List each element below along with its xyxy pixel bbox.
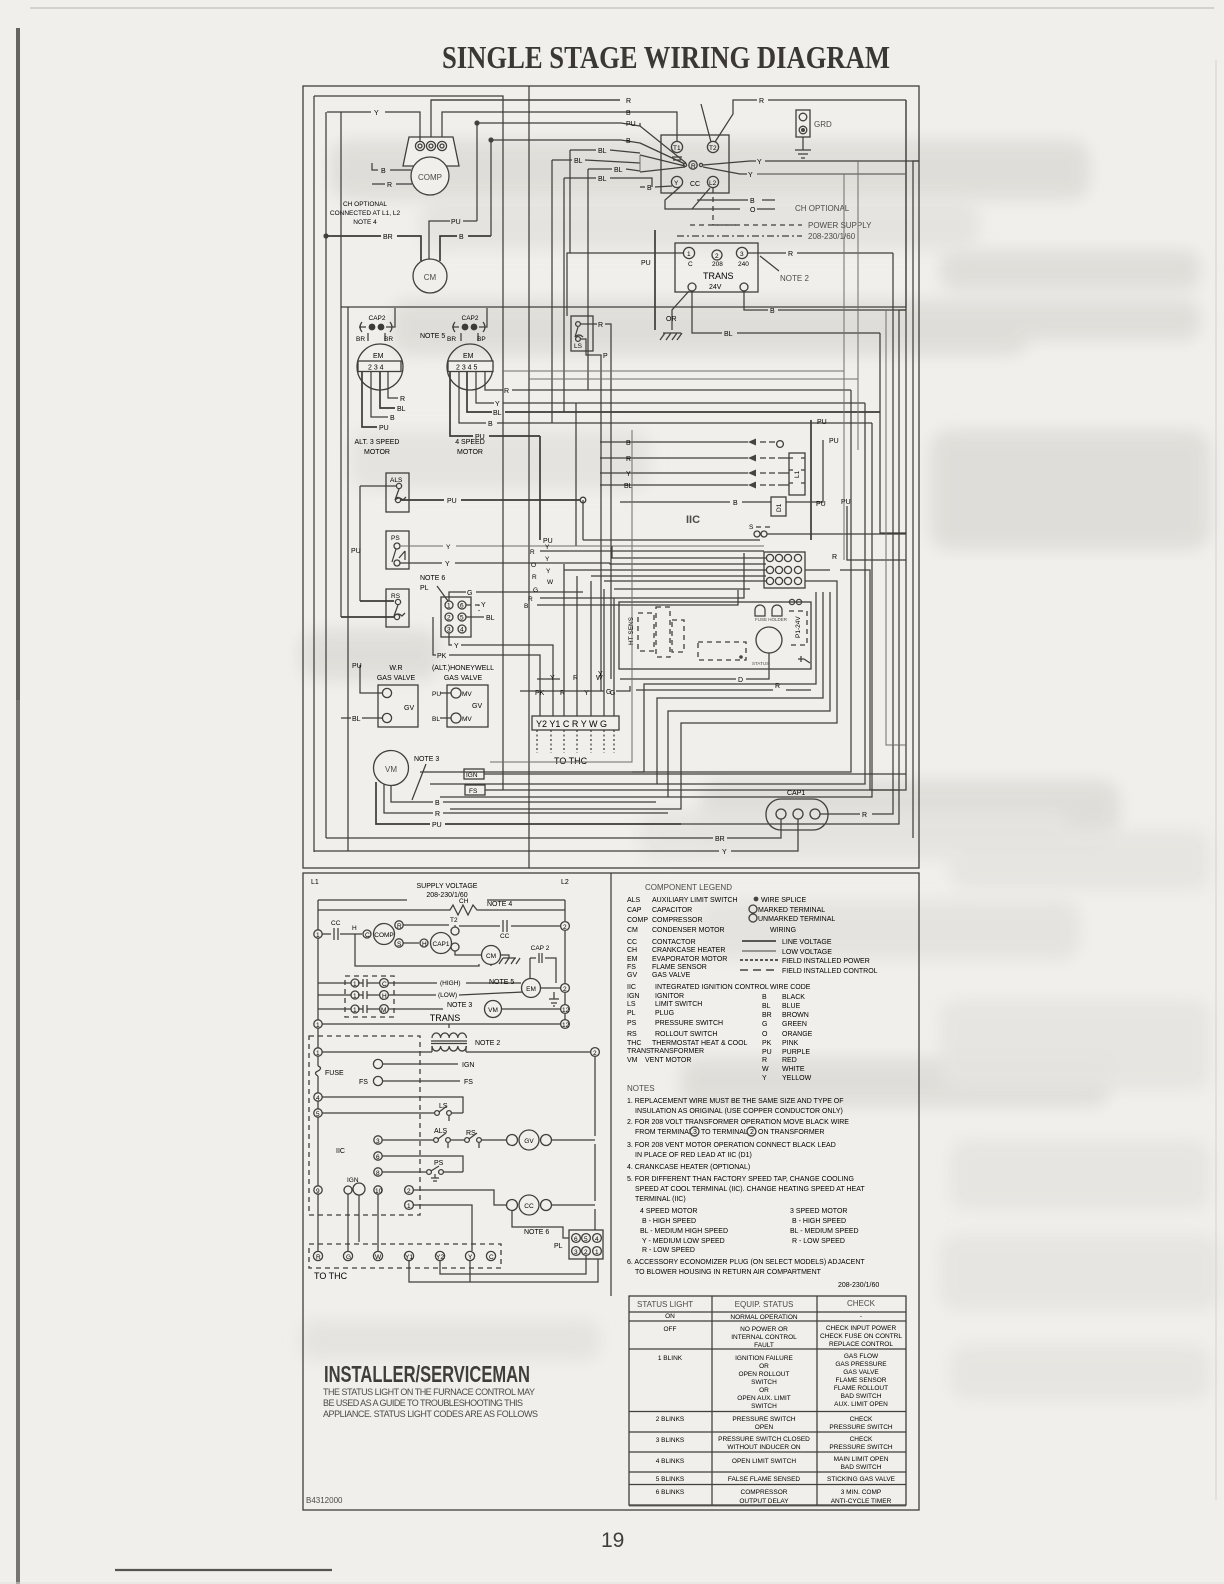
svg-text:PRESSURE SWITCH: PRESSURE SWITCH: [732, 1416, 796, 1423]
svg-text:PU: PU: [447, 498, 457, 505]
svg-text:WITHOUT INDUCER ON: WITHOUT INDUCER ON: [727, 1444, 800, 1451]
terminal Y: [671, 176, 682, 187]
svg-text:CHECK: CHECK: [850, 1416, 873, 1423]
svg-text:R: R: [626, 98, 631, 105]
svg-text:ORANGE: ORANGE: [782, 1031, 813, 1038]
svg-text:WIRING: WIRING: [770, 927, 796, 934]
capacitor CAP1: [766, 790, 828, 830]
flame sensor FS box: [465, 785, 485, 795]
svg-text:GAS VALVE: GAS VALVE: [652, 972, 691, 979]
svg-text:ALS: ALS: [627, 897, 641, 904]
svg-text:10: 10: [375, 1188, 383, 1195]
wire Y G lanes left of board: [537, 678, 560, 680]
svg-text:PRESSURE SWITCH: PRESSURE SWITCH: [829, 1424, 893, 1431]
svg-text:R: R: [862, 812, 867, 819]
svg-text:PU: PU: [451, 219, 461, 226]
svg-text:OPEN AUX. LIMIT: OPEN AUX. LIMIT: [737, 1395, 790, 1402]
svg-text:Y2: Y2: [436, 1254, 444, 1261]
svg-text:BR: BR: [447, 336, 456, 343]
svg-text:3: 3: [574, 1249, 578, 1256]
evaporator motor EM: [388, 982, 521, 984]
svg-text:Y: Y: [546, 568, 551, 575]
svg-text:3. FOR 208 VENT MOTOR OPERATIO: 3. FOR 208 VENT MOTOR OPERATION CONNECT …: [627, 1142, 836, 1149]
limit switch LS: [571, 316, 593, 351]
capacitor under T1: [672, 157, 682, 160]
svg-text:SPEED AT COOL TERMINAL (IIC).: SPEED AT COOL TERMINAL (IIC). CHANGE HEA…: [635, 1186, 865, 1193]
svg-text:INSTALLER/SERVICEMAN: INSTALLER/SERVICEMAN: [324, 1361, 530, 1387]
svg-text:MOTOR: MOTOR: [457, 449, 483, 456]
coil R: [689, 161, 697, 169]
svg-text:(LOW): (LOW): [438, 992, 457, 999]
svg-text:5: 5: [460, 615, 464, 622]
evaporator motor EM (4 speed): [447, 344, 493, 390]
wire G from PL: [449, 592, 583, 601]
wire B lane 2 with splice: [488, 137, 493, 142]
wires to plug rows: [318, 982, 380, 984]
wire right bus B trans: [681, 310, 906, 824]
gas valve GV (ALT Honeywell): [432, 665, 494, 727]
svg-text:208-230/1/60: 208-230/1/60: [808, 232, 856, 241]
svg-text:POWER SUPPLY: POWER SUPPLY: [808, 221, 872, 230]
wire Y out lower: [703, 167, 906, 174]
svg-text:FS: FS: [359, 1079, 368, 1086]
field installed power sample: [740, 959, 778, 961]
svg-text:COMPONENT LEGEND: COMPONENT LEGEND: [645, 883, 732, 892]
sensor pair: [789, 599, 794, 604]
wire EM1 leg BL: [380, 372, 395, 408]
svg-text:OPEN: OPEN: [755, 1424, 774, 1431]
svg-text:BAD SWITCH: BAD SWITCH: [841, 1393, 882, 1400]
svg-text:B - HIGH SPEED: B - HIGH SPEED: [792, 1218, 846, 1225]
svg-text:NOTE 6: NOTE 6: [524, 1229, 549, 1236]
svg-text:CH OPTIONAL: CH OPTIONAL: [795, 204, 850, 213]
svg-text:BL: BL: [724, 331, 733, 338]
THC dashed box: [309, 1244, 501, 1268]
svg-text:GAS VALVE: GAS VALVE: [843, 1369, 879, 1376]
svg-text:AUXILIARY LIMIT SWITCH: AUXILIARY LIMIT SWITCH: [652, 897, 738, 904]
svg-text:OUTPUT DELAY: OUTPUT DELAY: [739, 1498, 789, 1505]
svg-text:ON TRANSFORMER: ON TRANSFORMER: [758, 1129, 824, 1136]
svg-text:2: 2: [563, 986, 567, 993]
svg-text:FLAME SENSOR: FLAME SENSOR: [836, 1377, 887, 1384]
svg-text:R: R: [400, 396, 405, 403]
svg-text:PU: PU: [841, 499, 851, 506]
gas valve GV (W.R): [377, 665, 418, 727]
svg-text:B - HIGH SPEED: B - HIGH SPEED: [642, 1218, 696, 1225]
svg-text:MAIN LIMIT OPEN: MAIN LIMIT OPEN: [834, 1456, 889, 1463]
wire long vertical mid-left: [314, 96, 503, 790]
svg-text:5 BLINKS: 5 BLINKS: [656, 1476, 685, 1483]
wire P from LS: [581, 339, 601, 691]
svg-text:WIRE SPLICE: WIRE SPLICE: [761, 897, 806, 904]
crankcase heater CH: [318, 905, 565, 915]
FOOTER: [306, 1361, 624, 1552]
svg-text:NOTE 3: NOTE 3: [414, 756, 439, 763]
wire BL lane 3: [588, 169, 640, 171]
svg-text:CAP: CAP: [627, 907, 642, 914]
svg-text:C: C: [688, 261, 693, 268]
svg-text:W.R: W.R: [389, 665, 402, 672]
wire PU from VM: [376, 782, 681, 824]
terminal T1: [671, 141, 682, 152]
svg-text:BL: BL: [486, 615, 495, 622]
wire to RS bottom: [341, 616, 394, 618]
dashed bracket right: [789, 611, 807, 645]
THC terminals: [313, 1251, 322, 1260]
dashed relay 3: [672, 620, 684, 652]
wire PU to CM: [429, 221, 477, 259]
svg-text:GAS FLOW: GAS FLOW: [844, 1353, 879, 1360]
wire PU left of TRANS: [654, 230, 656, 330]
ignitor row: [314, 1186, 322, 1194]
svg-text:G: G: [533, 587, 538, 594]
svg-text:COMP: COMP: [627, 917, 648, 924]
svg-text:5: 5: [316, 1111, 320, 1118]
svg-text:PINK: PINK: [782, 1040, 799, 1047]
svg-text:THC: THC: [627, 1040, 641, 1047]
svg-text:H: H: [382, 993, 387, 1000]
svg-text:COMPRESSOR: COMPRESSOR: [652, 917, 703, 924]
NOTESB: [627, 1084, 879, 1289]
svg-text:B: B: [488, 421, 493, 428]
wire PU lane with splice: [474, 120, 479, 125]
svg-text:NO POWER OR: NO POWER OR: [740, 1326, 788, 1333]
svg-text:FS: FS: [627, 964, 636, 971]
svg-text:PL: PL: [554, 1243, 563, 1250]
svg-text:PS: PS: [391, 535, 400, 542]
buzzer circle: [756, 627, 782, 653]
wire left bus 3: [340, 112, 342, 617]
svg-text:1. REPLACEMENT WIRE MUST BE TH: 1. REPLACEMENT WIRE MUST BE THE SAME SIZ…: [627, 1098, 844, 1105]
svg-text:L1: L1: [794, 470, 801, 478]
svg-text:D: D: [738, 677, 743, 684]
svg-text:CONTACTOR: CONTACTOR: [652, 939, 696, 946]
wire Y from PS top: [400, 545, 612, 547]
wire EM2 leg R: [485, 372, 851, 390]
connector D1 small box: [771, 497, 786, 516]
svg-text:ON: ON: [665, 1313, 675, 1320]
svg-text:CH: CH: [627, 947, 637, 954]
svg-text:2: 2: [584, 1249, 588, 1256]
svg-text:Y: Y: [757, 159, 762, 166]
svg-text:OPEN LIMIT SWITCH: OPEN LIMIT SWITCH: [732, 1458, 796, 1465]
wire BL to GV: [341, 717, 382, 719]
svg-text:B: B: [626, 138, 631, 145]
svg-text:R: R: [397, 923, 402, 930]
svg-text:2: 2: [407, 1188, 411, 1195]
svg-text:RS: RS: [391, 593, 401, 600]
svg-text:R: R: [762, 1057, 767, 1064]
svg-text:Y: Y: [598, 671, 603, 678]
vent motor VM row: [388, 1008, 443, 1010]
svg-text:SWITCH: SWITCH: [751, 1403, 777, 1410]
terminal 4: [314, 1093, 322, 1101]
connector L1 (vertical): [789, 453, 805, 495]
right low rail: [594, 1056, 596, 1234]
svg-text:GAS VALVE: GAS VALVE: [377, 675, 416, 682]
svg-text:24V: 24V: [709, 284, 722, 291]
svg-text:R: R: [504, 388, 509, 395]
svg-text:19: 19: [601, 1529, 624, 1552]
svg-text:4: 4: [595, 1236, 599, 1243]
svg-text:4. CRANKCASE HEATER (OPTIONAL): 4. CRANKCASE HEATER (OPTIONAL): [627, 1164, 750, 1171]
svg-text:5. FOR DIFFERENT THAN FACTORY: 5. FOR DIFFERENT THAN FACTORY SPEED TAP,…: [627, 1176, 854, 1183]
terminal 12: [561, 1005, 570, 1014]
svg-text:1: 1: [316, 1022, 320, 1029]
wire B to CM: [440, 236, 491, 261]
svg-text:CC: CC: [524, 1203, 534, 1210]
svg-text:TRANS: TRANS: [430, 1013, 461, 1023]
svg-text:BLUE: BLUE: [782, 1003, 801, 1010]
svg-text:Y: Y: [445, 561, 450, 568]
svg-text:3: 3: [376, 1138, 380, 1145]
svg-text:B: B: [435, 800, 440, 807]
terminal 2: [561, 922, 570, 931]
wire right bus v872: [668, 423, 872, 797]
wire B from TRANS right: [744, 291, 906, 310]
svg-text:Y: Y: [454, 643, 459, 650]
svg-text:L1: L1: [311, 879, 319, 886]
svg-text:YELLOW: YELLOW: [782, 1075, 812, 1082]
svg-text:NOTE 5: NOTE 5: [420, 333, 445, 340]
svg-text:CAP2: CAP2: [462, 315, 479, 322]
svg-text:1: 1: [316, 932, 320, 939]
wire nested corners right mid: [843, 174, 845, 560]
svg-text:EQUIP. STATUS: EQUIP. STATUS: [735, 1300, 794, 1309]
svg-text:Y: Y: [481, 602, 486, 609]
svg-text:G: G: [762, 1021, 767, 1028]
svg-text:EM: EM: [526, 986, 536, 993]
svg-text:COMPRESSOR: COMPRESSOR: [741, 1489, 788, 1496]
svg-text:R: R: [532, 574, 537, 581]
svg-text:BLACK: BLACK: [782, 994, 805, 1001]
svg-text:BR: BR: [762, 1012, 772, 1019]
ground under EM2: [549, 992, 559, 1006]
wire Y dashed from PL: [466, 605, 479, 611]
ground at CM: [499, 955, 520, 964]
svg-text:SWITCH: SWITCH: [751, 1379, 777, 1386]
plug block 3 rows: [345, 976, 394, 1017]
wire power supply dashed: [713, 188, 740, 225]
svg-text:BR: BR: [715, 836, 725, 843]
contact CC right: [459, 925, 565, 927]
svg-text:IN PLACE OF RED LEAD AT IIC (D: IN PLACE OF RED LEAD AT IIC (D1): [635, 1152, 752, 1159]
svg-text:MOTOR: MOTOR: [364, 449, 390, 456]
capacitor CAP2 (right): [447, 308, 487, 343]
svg-text:NOTE 2: NOTE 2: [475, 1040, 500, 1047]
svg-text:BL: BL: [574, 158, 583, 165]
svg-text:Y1: Y1: [405, 1254, 413, 1261]
svg-text:1: 1: [353, 981, 357, 988]
svg-text:CC: CC: [627, 939, 637, 946]
wire from TRANS 1 left: [567, 253, 683, 316]
wire EM1 leg B: [371, 372, 388, 417]
wire R diagonals at T2: [701, 100, 906, 142]
terminal 1: [405, 1201, 414, 1210]
svg-text:PU: PU: [829, 438, 839, 445]
svg-text:H: H: [422, 941, 427, 948]
svg-text:FLAME SENSOR: FLAME SENSOR: [652, 964, 707, 971]
svg-text:PU: PU: [432, 691, 441, 698]
svg-text:R: R: [626, 456, 631, 463]
svg-text:Y: Y: [495, 401, 500, 408]
svg-text:CHECK FUSE ON CONTRL: CHECK FUSE ON CONTRL: [820, 1333, 902, 1340]
rail L1: [317, 900, 319, 1252]
svg-text:B: B: [733, 500, 738, 507]
wire B left of CC: [640, 186, 672, 187]
svg-text:TO TERMINAL: TO TERMINAL: [701, 1129, 748, 1136]
wire stub B on COMP: [372, 163, 411, 170]
svg-text:208: 208: [712, 261, 723, 268]
wire PU mid vertical: [539, 436, 541, 540]
svg-text:COMP: COMP: [418, 173, 442, 182]
wire EM1 leg R: [388, 372, 398, 398]
wire to RS top: [360, 600, 394, 602]
marked terminal symbol: [749, 905, 757, 913]
wire Y from PL bottom: [449, 633, 553, 716]
svg-text:RS: RS: [466, 1130, 476, 1137]
svg-text:CHECK INPUT POWER: CHECK INPUT POWER: [826, 1325, 897, 1332]
svg-text:BL: BL: [352, 716, 361, 723]
GHOSTS: [300, 140, 1210, 1106]
svg-text:1: 1: [353, 993, 357, 1000]
svg-text:LIMIT SWITCH: LIMIT SWITCH: [655, 1001, 702, 1008]
svg-text:6. ACCESSORY ECONOMIZER PLUG (: 6. ACCESSORY ECONOMIZER PLUG (ON SELECT …: [627, 1259, 865, 1266]
svg-text:OR: OR: [759, 1387, 769, 1394]
svg-text:TRANSFORMER: TRANSFORMER: [650, 1048, 704, 1055]
svg-text:Y: Y: [446, 544, 451, 551]
svg-text:W: W: [547, 579, 554, 586]
transformer TRANS row: [314, 1020, 322, 1028]
svg-text:2 BLINKS: 2 BLINKS: [656, 1416, 685, 1423]
svg-text:R: R: [598, 322, 603, 329]
dashed relay 1: [638, 613, 654, 651]
svg-text:R: R: [387, 182, 392, 189]
svg-text:BP: BP: [477, 336, 486, 343]
svg-text:B: B: [524, 603, 528, 610]
svg-text:L2: L2: [561, 879, 569, 886]
svg-text:1: 1: [353, 1007, 357, 1014]
contactor CC: [661, 135, 729, 193]
wire supply top: [318, 899, 565, 901]
svg-text:GREEN: GREEN: [782, 1021, 807, 1028]
svg-text:BL: BL: [614, 167, 623, 174]
terminal 3: [437, 141, 446, 150]
svg-text:4 SPEED MOTOR: 4 SPEED MOTOR: [640, 1208, 697, 1215]
drops to THC: [347, 1194, 349, 1251]
svg-text:PU: PU: [641, 260, 651, 267]
svg-text:Y: Y: [545, 556, 550, 563]
svg-text:GAS PRESSURE: GAS PRESSURE: [835, 1361, 887, 1368]
svg-text:IGNITOR: IGNITOR: [655, 993, 684, 1000]
svg-text:BR: BR: [383, 234, 393, 241]
svg-text:P1-24V: P1-24V: [795, 616, 802, 638]
svg-text:B: B: [647, 185, 652, 192]
legend divider: [610, 873, 612, 1296]
wire right bus R trans: [892, 253, 894, 800]
svg-text:BROWN: BROWN: [782, 1012, 809, 1019]
rollout switch RS: [450, 1139, 465, 1141]
svg-text:INTEGRATED IGNITION CONTROL: INTEGRATED IGNITION CONTROL: [655, 984, 769, 991]
svg-text:H: H: [352, 925, 357, 932]
svg-text:IGN: IGN: [466, 772, 478, 779]
label NOTE 2: [760, 256, 779, 271]
aux limit switch ALS: [382, 1139, 433, 1141]
svg-text:NORMAL OPERATION: NORMAL OPERATION: [730, 1314, 797, 1321]
TOPBOX: [303, 86, 919, 868]
svg-text:EM: EM: [463, 353, 474, 360]
svg-text:D1: D1: [776, 503, 783, 512]
dashed connector strip: [698, 642, 746, 660]
svg-text:REPLACE CONTROL: REPLACE CONTROL: [829, 1341, 893, 1348]
plug PL (6 pin): [441, 597, 471, 637]
svg-text:LINE VOLTAGE: LINE VOLTAGE: [782, 939, 832, 946]
gas valve GV coil: [481, 1139, 507, 1141]
wire bundle to connector rows: [583, 500, 760, 540]
svg-text:ALT. 3 SPEED: ALT. 3 SPEED: [354, 439, 399, 446]
wire CC to PL: [512, 1211, 569, 1238]
svg-text:GV: GV: [404, 705, 414, 712]
svg-text:BL: BL: [432, 716, 440, 723]
wire R top lane to right bus: [431, 99, 620, 101]
svg-text:208-230/1/60: 208-230/1/60: [838, 1282, 879, 1289]
svg-text:T1: T1: [673, 145, 681, 152]
svg-text:B: B: [750, 198, 755, 205]
terminal 5: [314, 1109, 322, 1117]
LADDER: [303, 873, 919, 1510]
wire right bus BL: [880, 333, 906, 533]
svg-text:MARKED TERMINAL: MARKED TERMINAL: [758, 907, 825, 914]
wire BL from PL: [466, 616, 484, 618]
svg-text:CRANKCASE HEATER: CRANKCASE HEATER: [652, 947, 725, 954]
wire B from VM: [391, 786, 656, 802]
svg-text:PU: PU: [379, 425, 389, 432]
svg-text:CHECK: CHECK: [847, 1299, 876, 1308]
rollout switch RS: [386, 589, 409, 627]
svg-text:R - LOW SPEED: R - LOW SPEED: [642, 1247, 695, 1254]
svg-text:CC: CC: [690, 181, 700, 188]
svg-text:P: P: [603, 353, 608, 360]
svg-text:2. FOR 208 VOLT TRANSFORMER OP: 2. FOR 208 VOLT TRANSFORMER OPERATION MO…: [627, 1119, 849, 1126]
svg-text:R: R: [691, 163, 696, 170]
wire stub R on COMP: [372, 183, 412, 185]
wire Y from PS bottom: [400, 562, 610, 564]
svg-text:O: O: [531, 562, 536, 569]
svg-text:PK: PK: [437, 653, 447, 660]
wire to ALS: [360, 485, 396, 487]
WIRES: [314, 96, 919, 852]
flame sensor plug: [756, 526, 770, 528]
svg-text:6: 6: [574, 1236, 578, 1243]
svg-text:BAD SWITCH: BAD SWITCH: [841, 1464, 882, 1471]
ground lug GRD: [795, 110, 832, 158]
terminal C: [363, 930, 371, 938]
svg-text:1: 1: [687, 251, 691, 258]
svg-text:IGN: IGN: [462, 1062, 474, 1069]
wire PU left rail: [359, 486, 361, 601]
terminal 2: [405, 1186, 414, 1195]
svg-text:COMP: COMP: [374, 932, 394, 939]
svg-text:LOW VOLTAGE: LOW VOLTAGE: [782, 949, 832, 956]
svg-text:THERMOSTAT HEAT & COOL: THERMOSTAT HEAT & COOL: [652, 1040, 748, 1047]
svg-text:FIELD INSTALLED POWER: FIELD INSTALLED POWER: [782, 958, 870, 965]
vent motor VM: [374, 751, 409, 786]
svg-text:BL: BL: [624, 483, 633, 490]
terminal 6: [374, 1152, 382, 1160]
wire staircase upper: [420, 592, 816, 772]
svg-text:FIELD INSTALLED CONTROL: FIELD INSTALLED CONTROL: [782, 968, 878, 975]
svg-text:LS: LS: [574, 343, 583, 350]
